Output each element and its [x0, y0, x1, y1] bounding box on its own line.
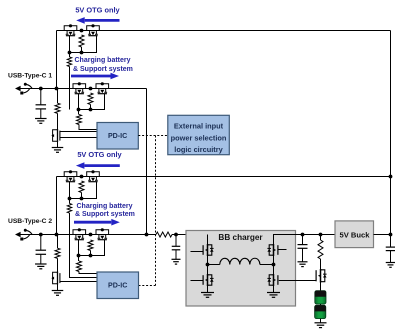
- resistor charging pair 2 gate pull: [88, 240, 93, 251]
- inductor L1: [208, 258, 274, 264]
- wire chg1 resistor to loop: [90, 105, 92, 110]
- wire cap C1 to ground: [40, 109, 42, 119]
- arrow charging direction (section 1, right): [71, 75, 111, 78]
- battery cell 1: [315, 291, 326, 304]
- wire Q11 to SW1: [207, 256, 209, 265]
- battery cell 2: [315, 305, 326, 318]
- ground below battery: [315, 323, 327, 328]
- wire OTG1 gate loop: [70, 36, 97, 53]
- wire OTG2 loop down lower: [69, 213, 71, 256]
- svg-text:& Support system: & Support system: [75, 211, 135, 218]
- ground below Q12: [201, 293, 214, 298]
- capacitor C3 (charger input): [172, 246, 181, 250]
- transistor Q7 OTG FET B (section 2): [87, 172, 100, 177]
- wire R3 to Q5: [57, 113, 59, 129]
- wire right bus from 5V buck output: [390, 31, 392, 235]
- svg-text:power selection: power selection: [171, 133, 227, 142]
- node VBUS1 cap tap: [39, 87, 43, 91]
- wire cap C5 to ground: [390, 251, 392, 263]
- node OTG1 gate loop resistor tap: [80, 51, 84, 55]
- wire OTG1 loop to charging loop upper: [69, 53, 71, 58]
- node chg2 loop left: [77, 254, 81, 258]
- wire BB output riser: [274, 235, 303, 245]
- wire cap C2 to ground: [40, 254, 42, 264]
- wire cap C1 lead: [40, 89, 42, 105]
- wire R6 to Q10: [57, 258, 59, 271]
- ground below Q10: [52, 291, 64, 296]
- resistor charging pair 1 gate pull: [88, 93, 93, 105]
- wire chg1 gate loop: [79, 94, 105, 110]
- svg-text:PD-IC: PD-IC: [108, 132, 127, 140]
- wire Q5 source to ground: [57, 142, 59, 148]
- transistor Q12 buck low-side: [207, 274, 209, 286]
- transistor Q15 battery protection FET: [320, 269, 322, 283]
- IC PD-IC 2 box: [97, 272, 139, 299]
- resistor R7 input sense: [156, 232, 172, 237]
- wire chg2 loop down to resistor R5: [78, 256, 80, 262]
- transistor Q6 OTG FET A (section 2): [64, 172, 77, 177]
- transistor Q14 boost low-side: [273, 274, 275, 286]
- wire cap C4 lead: [302, 235, 304, 245]
- node SW2: [272, 263, 276, 267]
- wire SW2 to Q14: [273, 265, 275, 275]
- transistor Q13 boost high-side: [273, 244, 275, 256]
- wire Q12 gate stub: [191, 280, 204, 282]
- transistor Q1 OTG FET A (section 1): [64, 26, 77, 31]
- wire R2 to PD-IC 1: [79, 125, 97, 130]
- resistor OTG pair 1 gate pull: [79, 35, 84, 47]
- wire VBUS1 to R3: [57, 89, 59, 104]
- wire OTG1 loop to charging loop lower: [69, 67, 71, 110]
- block BB charger box: [186, 231, 296, 307]
- resistor OTG pair 2 gate pull: [79, 181, 84, 193]
- svg-text:BB charger: BB charger: [218, 233, 263, 242]
- block 5V Buck box: [335, 221, 374, 248]
- node OTG1 gate loop left: [68, 51, 72, 55]
- wire OTG2 gate loop: [70, 182, 97, 199]
- wire input rail into BB charger: [172, 234, 208, 236]
- wire left drop USB-C2: [56, 177, 58, 235]
- wire battery branch: [320, 235, 322, 241]
- wire VBUS2 rail: [20, 234, 157, 236]
- resistor R5 gate divider (section 2): [77, 261, 82, 272]
- wire chg1 loop down to resistor R2: [78, 110, 80, 115]
- wire R5 to PD-IC 2: [79, 272, 97, 274]
- wire Q10 gate to PD-IC 2: [60, 281, 97, 283]
- wire VBUS1 rail: [20, 88, 147, 90]
- capacitor C4 (system): [298, 245, 308, 249]
- node chg1 loop left: [77, 108, 81, 112]
- wire BB input drop to Q11: [207, 235, 209, 245]
- capacitor C5 (buck output): [386, 247, 395, 251]
- transistor Q5 (section 1, PD-IC driven): [57, 129, 59, 142]
- node battery branch tap: [319, 233, 323, 237]
- wire between cells: [320, 304, 322, 305]
- node mid junction charging pair 1: [89, 87, 93, 91]
- transistor Q2 OTG FET B (section 1): [87, 26, 100, 31]
- transistor Q4 charging FET B (section 1): [96, 84, 109, 89]
- capacitor C1 (USB-C1 VBUS): [36, 105, 47, 109]
- connector USB-Type-C 1 plug symbol: [15, 86, 21, 92]
- wire OTG2 net to PD-IC 2: [70, 256, 98, 278]
- svg-text:5V OTG only: 5V OTG only: [75, 5, 120, 14]
- svg-text:logic circuitry: logic circuitry: [174, 145, 223, 154]
- ground below Q14: [267, 293, 280, 298]
- svg-text:External input: External input: [174, 122, 224, 131]
- svg-text:USB-Type-C 1: USB-Type-C 1: [8, 73, 52, 80]
- wire Q15 to battery: [320, 283, 322, 291]
- wire Q12 to ground: [207, 286, 209, 293]
- svg-text:& Support system: & Support system: [73, 66, 133, 73]
- node OTG2 gate loop resistor tap: [80, 197, 84, 201]
- wire Q5 gate to PD-IC 1: [60, 137, 97, 139]
- wire cap C3 to ground: [175, 250, 177, 259]
- wire Q5 drain sense to PD-IC 1: [60, 131, 97, 133]
- resistor inline on OTG1 gate net: [67, 57, 71, 67]
- arrow 5V OTG direction (section 1, left): [85, 19, 120, 22]
- resistor R2 gate divider (section 1): [77, 115, 82, 125]
- resistor R8 battery sense: [318, 240, 323, 259]
- transistor Q11 buck high-side: [207, 244, 209, 256]
- wire SW1 to Q12: [207, 265, 209, 275]
- wire 5V OTG rail section 2: [57, 176, 391, 178]
- node chg2 loop resistor tap: [89, 254, 93, 258]
- node junction right bus / buck output: [389, 233, 393, 237]
- wire system node to buck: [303, 234, 336, 236]
- node junction left drop / VBUS1 rail: [55, 87, 59, 91]
- resistor inline on OTG2 gate net: [67, 204, 71, 214]
- node mid junction OTG pair 1: [80, 29, 84, 33]
- resistor R3 (section 1): [55, 103, 60, 113]
- svg-text:5V Buck: 5V Buck: [340, 231, 371, 240]
- node chg1 loop resistor tap: [89, 108, 93, 112]
- ground below C5: [386, 263, 395, 268]
- wire cap C4 to ground: [302, 248, 304, 261]
- node SW1: [206, 263, 210, 267]
- wire OTG1 resistor to gate loop: [81, 47, 83, 53]
- wire Q13 gate stub: [278, 249, 287, 251]
- connector USB-Type-C 2 plug symbol: [15, 232, 21, 238]
- IC PD-IC 1 box: [97, 123, 138, 150]
- svg-text:Charging battery: Charging battery: [77, 203, 133, 210]
- arrow charging direction (section 2, right): [74, 221, 111, 224]
- block external input power selection logic box: [168, 115, 230, 154]
- transistor Q10 (section 2, PD-IC driven): [57, 272, 59, 285]
- wire Q14 to ground: [273, 286, 275, 293]
- wire VBUS1 to selection node: [146, 89, 148, 235]
- node OTG2 gate loop left: [68, 197, 72, 201]
- wire OTG2 loop down upper: [69, 199, 71, 204]
- transistor Q8 charging FET A (section 2): [73, 230, 86, 235]
- ground below C3: [172, 259, 181, 264]
- transistor Q9 charging FET B (section 2): [96, 230, 109, 235]
- node mid junction charging pair 2: [89, 233, 93, 237]
- node junction OTG2 rail / right bus: [389, 175, 393, 179]
- wire dashed selection bus vertical: [155, 136, 157, 286]
- wire 5V OTG rail section 1 (top): [57, 30, 391, 32]
- wire dashed selection to PD-IC 2: [139, 285, 156, 287]
- svg-text:USB-Type-C 2: USB-Type-C 2: [8, 218, 52, 225]
- wire Q13 to SW2: [273, 256, 275, 265]
- wire Q10 source to ground: [57, 285, 59, 291]
- wire OTG2 resistor to gate loop: [81, 193, 83, 199]
- ground below C1: [35, 119, 47, 124]
- capacitor C2 (USB-C2 VBUS): [36, 250, 47, 254]
- wire cap C5 lead: [390, 235, 392, 248]
- wire left drop USB-C1: [56, 31, 58, 89]
- ground below Q5: [52, 148, 64, 153]
- wire buck output: [374, 234, 391, 236]
- wire Q11 gate stub: [191, 251, 204, 253]
- wire Q15 gate from BB charger: [279, 280, 317, 282]
- svg-text:5V OTG only: 5V OTG only: [77, 150, 122, 159]
- ground below C2: [35, 264, 47, 269]
- node junction left drop / VBUS2 rail: [55, 233, 59, 237]
- wire VBUS2 to R6: [57, 235, 59, 249]
- svg-text:Charging battery: Charging battery: [75, 57, 131, 64]
- resistor R6 (section 2): [55, 248, 60, 258]
- node system cap tap: [301, 233, 305, 237]
- wire chg2 resistor to loop: [90, 251, 92, 256]
- wire R8 to Q15: [320, 259, 322, 269]
- wire dashed PD-IC 1 to selection logic: [138, 135, 168, 137]
- arrow 5V OTG direction (section 2, left): [84, 164, 119, 167]
- wire cap C3 lead: [175, 235, 177, 247]
- node VBUS2 cap tap: [39, 233, 43, 237]
- transistor Q3 charging FET A (section 1): [73, 84, 86, 89]
- ground below C4: [298, 262, 308, 267]
- wire cap C2 lead: [40, 235, 42, 251]
- svg-text:PD-IC: PD-IC: [108, 282, 127, 290]
- node input rail after R7: [174, 233, 178, 237]
- node junction VBUS1 drop on input rail: [145, 233, 149, 237]
- node mid junction OTG pair 2: [80, 175, 84, 179]
- wire chg2 gate loop: [79, 240, 105, 256]
- wire battery to ground: [320, 319, 322, 323]
